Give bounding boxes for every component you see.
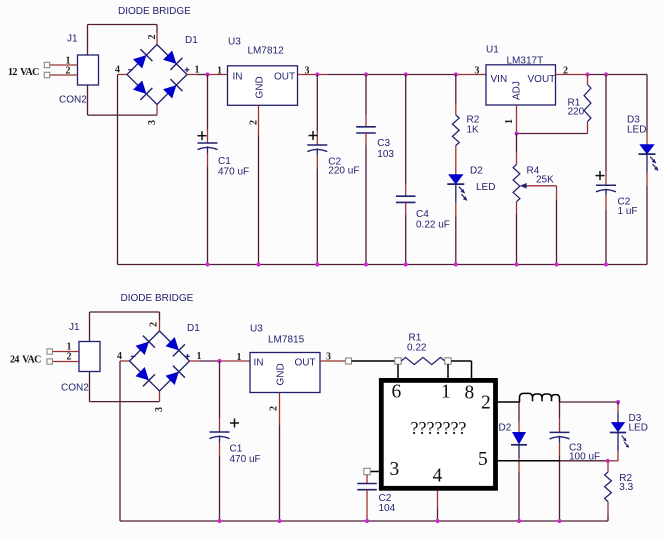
ground rail (bottom circuit) — [120, 520, 608, 522]
label 24 VAC — [10, 355, 41, 366]
svg-text:IN: IN — [254, 358, 264, 369]
svg-text:U1: U1 — [486, 45, 499, 56]
wire U3 GND pin2 to ground rail (bottom) — [269, 393, 280, 522]
svg-text:2: 2 — [269, 406, 280, 411]
connector J1 (top) with CON2 label and pins 1,2 — [50, 34, 99, 106]
svg-text:1: 1 — [441, 382, 451, 403]
svg-text:OUT: OUT — [274, 72, 295, 83]
wire U3 OUT to terminal square (bottom) — [320, 360, 346, 362]
pin 1 stub of U3 (top) — [208, 66, 228, 77]
wire U1 ADJ pin 1 to R1 bottom — [504, 105, 588, 134]
wire U3 OUT to U1 VIN (net 12V) — [298, 74, 487, 76]
svg-text:3: 3 — [147, 120, 158, 125]
svg-text:???????: ??????? — [411, 418, 467, 438]
svg-text:8: 8 — [465, 383, 475, 404]
label DIODE BRIDGE (top) — [118, 6, 191, 17]
pin number 3 of bridge D1 (top) — [147, 120, 158, 125]
svg-text:IN: IN — [233, 72, 243, 83]
svg-text:1 uF: 1 uF — [618, 206, 638, 217]
svg-text:GND: GND — [276, 363, 287, 385]
svg-text:470 uF: 470 uF — [218, 167, 249, 178]
diode bridge D1 (bottom) — [117, 323, 202, 391]
junction dot at ADJ node — [514, 131, 518, 135]
diode D2 (bottom, catch diode) — [499, 402, 528, 521]
svg-text:3: 3 — [154, 407, 165, 412]
connector J1 (bottom) with CON2 label and pins 1,2 — [52, 322, 100, 394]
svg-text:6: 6 — [392, 382, 402, 403]
wire J1 pin1 to bridge pin2 (top AC) — [88, 25, 158, 56]
svg-text:C1: C1 — [218, 156, 231, 167]
svg-text:2: 2 — [249, 120, 260, 125]
svg-text:2: 2 — [67, 352, 72, 363]
svg-text:LED: LED — [476, 182, 495, 193]
svg-text:4: 4 — [433, 466, 443, 487]
regulator U3 LM7812 — [228, 37, 310, 106]
ground rail junction dots (top) — [205, 262, 608, 266]
input terminal squares J1 (bottom) — [47, 349, 52, 364]
input terminal squares J1 (top) — [44, 62, 49, 77]
IC U2 unknown (???????) thick box with pins 6,1,8,2,3,4,5 — [381, 380, 495, 488]
junction dots on 12V net (top) — [315, 72, 458, 76]
ground rail (top circuit) — [118, 264, 648, 266]
svg-text:220: 220 — [568, 107, 585, 118]
wire J1 pin2 to bridge pin3 (bottom AC) — [88, 85, 158, 115]
wire IC pin 2 to inductor (black) — [498, 401, 520, 403]
svg-text:LM7815: LM7815 — [268, 335, 305, 346]
diode bridge D1 (top) — [115, 35, 200, 105]
wire U3 GND pin 2 to ground rail — [249, 105, 260, 264]
svg-text:C1: C1 — [230, 444, 243, 455]
svg-text:4: 4 — [115, 65, 120, 76]
svg-text:D2: D2 — [470, 166, 483, 177]
pin number 3 of bridge D1 (bottom) — [154, 407, 165, 412]
capacitor C1 470 uF (bottom) — [210, 361, 261, 521]
svg-text:CON2: CON2 — [59, 95, 87, 106]
junction dot at pin5/D3/R2 node — [606, 459, 610, 463]
capacitor C3 100 uF (bottom) — [550, 402, 601, 521]
svg-text:LM7812: LM7812 — [248, 46, 285, 57]
svg-text:D2: D2 — [499, 423, 512, 434]
svg-text:4: 4 — [117, 351, 122, 362]
svg-text:0.22: 0.22 — [407, 343, 427, 354]
LED D3 (bottom) — [608, 402, 648, 461]
svg-text:VOUT: VOUT — [528, 74, 556, 85]
svg-text:U3: U3 — [228, 37, 241, 48]
wire J1 pin1 to bridge pin2 (bottom circuit) — [90, 312, 160, 342]
svg-text:LED: LED — [627, 125, 646, 136]
capacitor C4 0.22 uF (top) — [396, 75, 450, 265]
wire IC pin 5 to D3/R2 node — [498, 460, 608, 462]
ground rail junction dots (bottom) — [217, 519, 561, 523]
label DIODE BRIDGE (bottom) — [121, 293, 194, 304]
wire R1 right terminal down to IC pin 1 — [447, 364, 449, 378]
potentiometer R4 25K — [513, 134, 556, 265]
svg-text:LED: LED — [629, 423, 648, 434]
svg-text:3: 3 — [475, 66, 480, 77]
wire VOUT net to LED D3 (top) — [646, 75, 648, 145]
regulator U3 LM7815 — [250, 324, 331, 393]
svg-text:1: 1 — [504, 119, 515, 124]
svg-text:104: 104 — [379, 503, 396, 514]
wire R1 left terminal down to IC pin 6 — [397, 364, 399, 378]
regulator U1 LM317T — [475, 45, 569, 106]
svg-text:1K: 1K — [467, 125, 480, 136]
wire IC pin 3 to terminal square (black) — [370, 471, 379, 473]
svg-text:103: 103 — [377, 149, 394, 160]
svg-text:CON2: CON2 — [61, 383, 89, 394]
wire IC pin 4 to ground rail — [437, 491, 439, 521]
svg-text:J1: J1 — [69, 322, 80, 333]
inductor L1 (black bumps) — [520, 393, 560, 402]
svg-text:2: 2 — [66, 66, 71, 77]
capacitor C2 220 uF (top) — [307, 75, 359, 265]
resistor R1 0.22 (bottom) — [395, 333, 451, 365]
wire square to R1 left terminal (black) — [352, 360, 396, 362]
svg-text:24 VAC: 24 VAC — [10, 355, 41, 366]
svg-text:U3: U3 — [250, 324, 263, 335]
svg-text:J1: J1 — [67, 34, 78, 45]
svg-text:C3: C3 — [377, 138, 390, 149]
svg-text:C4: C4 — [416, 209, 429, 220]
wire R1 right terminal to IC pin 8 — [451, 361, 471, 378]
capacitor C1 470 uF (top) — [198, 75, 250, 265]
LED D3 (top) — [627, 115, 658, 265]
wire bridge plus to U3 IN (bottom) — [190, 360, 251, 362]
capacitor C2 104 (bottom) — [357, 475, 395, 521]
svg-text:ADJ: ADJ — [512, 81, 523, 100]
pin 1 label of U3 (bottom) — [237, 352, 242, 363]
svg-text:5: 5 — [478, 449, 488, 470]
svg-text:220 uF: 220 uF — [328, 166, 359, 177]
svg-text:VIN: VIN — [491, 74, 508, 85]
wire U1 VOUT to output column (top right) — [556, 74, 648, 76]
wire J1 pin2 to bridge pin3 (bottom circuit) — [90, 372, 160, 402]
svg-text:2: 2 — [147, 35, 158, 40]
svg-text:470 uF: 470 uF — [230, 454, 261, 465]
LED D2 (top) — [447, 146, 495, 265]
junction dot at D3 top node — [616, 400, 620, 404]
resistor R1 220 (top) — [568, 75, 591, 134]
svg-text:2: 2 — [149, 322, 160, 327]
capacitor C3 103 (top) — [356, 75, 394, 265]
svg-text:0.22 uF: 0.22 uF — [416, 220, 450, 231]
wire R4 wiper to ground rail — [556, 186, 558, 265]
svg-text:1: 1 — [217, 66, 222, 77]
svg-text:3.3: 3.3 — [619, 482, 633, 493]
wire bridge minus (pin4) to ground rail (bottom) — [120, 361, 130, 521]
svg-text:2: 2 — [481, 393, 491, 414]
wire bridge plus to U3 IN (net VIN top) — [187, 74, 208, 76]
terminal square at IC pin 3 — [364, 468, 370, 474]
svg-text:1: 1 — [237, 352, 242, 363]
svg-text:D1: D1 — [185, 35, 198, 46]
junction dot at C1 / input net (top) — [205, 72, 209, 76]
pin number 2 of bridge D1 (top) — [147, 35, 158, 40]
junction dots on VOUT net — [585, 72, 608, 76]
svg-text:12 VAC: 12 VAC — [8, 67, 39, 78]
svg-text:DIODE BRIDGE: DIODE BRIDGE — [121, 293, 194, 304]
label 12 VAC — [8, 67, 39, 78]
terminal square at U3 OUT (bottom) — [346, 358, 352, 364]
wire bridge minus (pin4) to ground rail — [118, 75, 128, 265]
pin number 2 of bridge D1 (bottom) — [149, 322, 160, 327]
junction dot at C1 (bottom) — [217, 359, 221, 363]
svg-text:OUT: OUT — [295, 358, 316, 369]
svg-text:DIODE BRIDGE: DIODE BRIDGE — [118, 6, 191, 17]
wire inductor to D3 node (bottom) — [560, 401, 619, 403]
resistor R2 3.3 (bottom) — [605, 461, 634, 521]
svg-text:3: 3 — [390, 459, 400, 480]
svg-text:25K: 25K — [536, 175, 554, 186]
svg-text:D1: D1 — [187, 323, 200, 334]
resistor R2 1K (top) — [452, 75, 479, 146]
svg-text:LM317T: LM317T — [507, 56, 544, 67]
capacitor C2 1 uF (top right) — [596, 75, 638, 265]
svg-text:GND: GND — [255, 76, 266, 98]
